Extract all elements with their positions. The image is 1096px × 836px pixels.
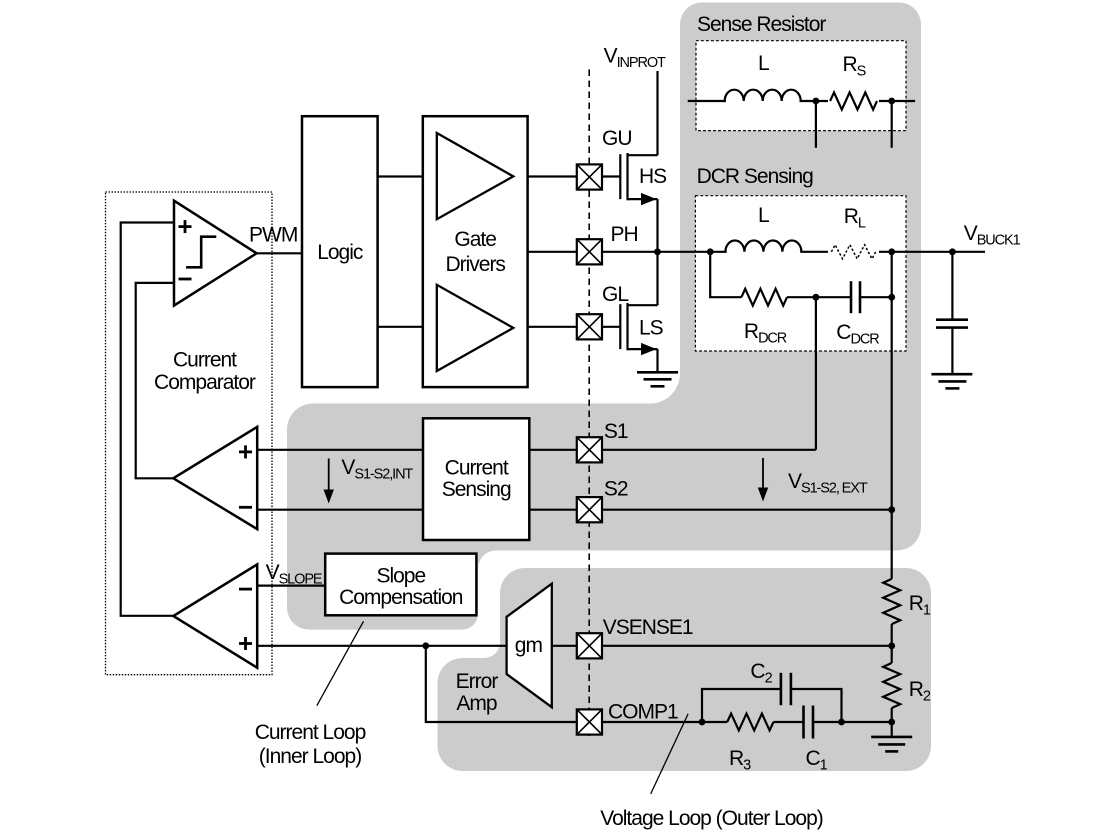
svg-text:Error: Error	[456, 670, 499, 693]
output capacitor	[951, 252, 953, 319]
svg-text:PH: PH	[611, 223, 638, 246]
pin S1	[577, 437, 602, 462]
dashed box: DCR sensing model	[695, 196, 906, 351]
shaded region: sense/DCR panel + current-loop band + slope extension	[287, 3, 921, 630]
wire: C1 to ground node	[813, 721, 892, 723]
dashed box: sense resistor model	[696, 41, 906, 131]
inductor L (DCR model)	[727, 250, 801, 253]
wire: R2 to ground	[891, 708, 893, 736]
block: Logic	[302, 116, 378, 387]
svg-text:S1: S1	[604, 420, 628, 443]
node C1 right	[838, 719, 845, 726]
shaded region: voltage loop blob	[438, 568, 932, 771]
inductor L (sense resistor model)	[726, 100, 800, 103]
capacitor C1	[804, 706, 814, 739]
node gm output	[422, 642, 429, 649]
svg-text:HS: HS	[639, 165, 667, 188]
block: Slope Compensation	[325, 554, 476, 616]
svg-text:LS: LS	[639, 317, 664, 340]
node COMP1	[699, 719, 706, 726]
resistor R1	[883, 579, 900, 624]
svg-text:Current: Current	[445, 457, 509, 480]
wire: PWM output to Logic	[257, 252, 302, 254]
leader line voltage loop	[651, 714, 688, 794]
wire: RDCR to CDCR	[787, 296, 851, 298]
U3 - + signs	[239, 589, 252, 650]
ground under LS	[637, 372, 678, 386]
wire: R3 to C1	[774, 721, 804, 723]
wire: vertical DCR right node down to R1	[891, 252, 893, 579]
resistor RS	[830, 92, 877, 109]
wire: S2 row	[257, 509, 892, 511]
svg-text:GL: GL	[602, 283, 628, 306]
svg-text:VINPROT: VINPROT	[604, 45, 666, 72]
node VSENSE1 divider	[888, 642, 895, 649]
svg-text:(Inner Loop): (Inner Loop)	[259, 745, 361, 768]
node dots DCR	[707, 248, 714, 255]
buffer: lower gate driver	[437, 285, 514, 371]
wire: R1 to R2	[891, 624, 893, 663]
sense resistor panel: main wire	[688, 100, 915, 102]
dotted box: current comparator group	[106, 192, 273, 675]
node VBUCK1	[949, 248, 956, 255]
sense tap stubs	[815, 101, 817, 148]
wire: Logic to lower gate driver	[378, 326, 437, 328]
node S2 junction	[888, 506, 895, 513]
arrow VS1-S2,INT	[328, 459, 330, 495]
svg-text:VBUCK1: VBUCK1	[964, 222, 1021, 249]
pin GL	[577, 314, 602, 339]
block: Gate Drivers	[423, 116, 528, 387]
svg-text:Comparator: Comparator	[154, 371, 256, 394]
pin GU	[577, 164, 602, 189]
wire: VINPROT feed	[656, 71, 658, 155]
wire: COMP1 to R3	[702, 721, 727, 723]
node dots sense resistor	[813, 98, 820, 105]
op-amp U2: current sense amp	[173, 427, 257, 529]
svg-text:Drivers: Drivers	[445, 253, 505, 276]
arrow VS1-S2,EXT	[762, 458, 764, 492]
svg-text:L: L	[758, 52, 769, 75]
wire: GL gate drive	[513, 326, 620, 328]
transistor Q-HS high-side MOSFET	[620, 153, 657, 252]
resistor RDCR	[741, 289, 787, 306]
svg-text:gm: gm	[515, 634, 543, 657]
svg-text:Logic: Logic	[317, 241, 363, 264]
wire: slope compensation - input	[257, 584, 325, 586]
node R2 ground junction	[888, 719, 895, 726]
resistor R3	[727, 714, 773, 731]
resistor RL (parasitic, dashed)	[828, 251, 879, 254]
wire: comparator + / gm output row	[257, 645, 506, 647]
wire: PH row	[528, 251, 985, 253]
svg-text:VSENSE1: VSENSE1	[603, 616, 693, 639]
svg-text:Slope: Slope	[376, 565, 425, 588]
svg-text:Current: Current	[173, 349, 237, 372]
svg-text:GU: GU	[602, 127, 632, 150]
dashed net boundary line (IC pin boundary)	[588, 70, 590, 740]
node PH junction	[654, 248, 661, 255]
pin VSENSE1	[577, 633, 602, 658]
svg-text:L: L	[758, 204, 769, 227]
svg-text:Compensation: Compensation	[339, 586, 463, 609]
svg-text:Current Loop: Current Loop	[255, 721, 366, 744]
pin COMP1	[577, 709, 602, 734]
U1 + sign	[179, 220, 192, 279]
svg-text:S2: S2	[604, 478, 628, 501]
U1 slope waveform symbol	[186, 237, 216, 268]
pin S2	[577, 497, 602, 522]
buffer: upper gate driver	[437, 133, 514, 219]
transistor Q-LS low-side MOSFET	[620, 252, 657, 372]
ground under output capacitor	[931, 374, 972, 388]
error amp gm trapezoid	[507, 584, 552, 708]
capacitor C2 branch	[702, 689, 781, 722]
wire: VSENSE1 row	[552, 645, 892, 647]
ground under R2	[871, 737, 912, 752]
capacitor CDCR	[851, 281, 860, 313]
svg-text:DCR Sensing: DCR Sensing	[697, 165, 814, 188]
svg-text:Gate: Gate	[454, 228, 496, 251]
wire: PWM comparator + input	[121, 223, 174, 616]
svg-text:COMP1: COMP1	[608, 701, 678, 724]
wire: PWM comparator - input	[136, 283, 174, 478]
U2 + - signs	[239, 445, 252, 507]
wire: GU gate drive	[513, 175, 620, 177]
block: Current Sensing	[423, 418, 529, 540]
op-amp U1: PWM comparator	[174, 201, 257, 306]
leader line current loop	[317, 621, 364, 705]
resistor R2	[883, 663, 900, 708]
svg-text:Amp: Amp	[456, 692, 497, 715]
svg-text:Voltage Loop (Outer Loop): Voltage Loop (Outer Loop)	[600, 807, 823, 830]
wire: COMP1 drop from gm output node	[426, 646, 702, 722]
svg-text:PWM: PWM	[249, 224, 297, 247]
wire: S1 row	[257, 449, 816, 451]
op-amp U3: summing comparator	[173, 564, 257, 667]
pin PH	[577, 239, 602, 264]
wire: DCR lower branch left	[710, 252, 741, 297]
svg-text:Sensing: Sensing	[442, 478, 511, 501]
wire: vertical RDCR node to S1	[815, 297, 817, 450]
wire: Logic to upper gate driver	[378, 175, 437, 177]
svg-text:Sense Resistor: Sense Resistor	[697, 13, 826, 36]
